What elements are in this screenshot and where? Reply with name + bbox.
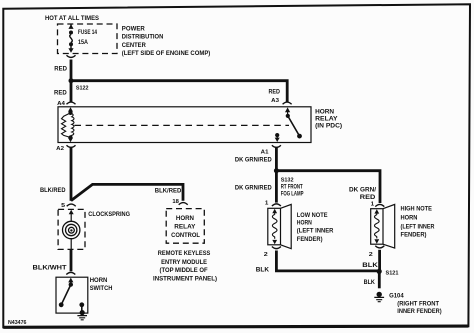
connector A1 [272,145,281,147]
svg-text:FOG LAMP: FOG LAMP [281,191,304,198]
ground at horn switch [77,310,87,320]
connector pin 2 low [272,247,281,249]
splice S132 [274,168,279,173]
wire clockspring to horn switch [70,249,73,271]
clockspring dashed box [58,209,130,249]
svg-text:18: 18 [172,199,179,205]
svg-text:LOW NOTE: LOW NOTE [297,212,328,219]
svg-text:FENDER): FENDER) [401,232,427,239]
svg-text:1: 1 [371,202,375,208]
wire S132 to low note horn [275,171,278,203]
horn switch box [56,277,113,313]
horn relay control dashed box (RKE) [166,209,204,244]
svg-text:RED: RED [54,65,67,72]
svg-text:SWITCH: SWITCH [90,285,113,292]
remote keyless entry module label [153,250,217,282]
svg-text:CENTER: CENTER [122,42,146,49]
connector pin 1 high [375,204,384,206]
horn switch contacts [59,278,84,312]
svg-text:A3: A3 [271,98,279,104]
svg-text:(RIGHT FRONT: (RIGHT FRONT [397,301,439,308]
svg-text:RED: RED [360,194,376,201]
svg-text:BLK: BLK [362,262,378,269]
wire S122 to A3 (top horizontal) [71,81,287,102]
svg-text:CONTROL: CONTROL [171,232,200,239]
svg-text:1: 1 [265,201,269,207]
wire label DK GRN/ RED (high) [349,186,376,201]
connector pin 2 high [375,246,384,248]
svg-text:2: 2 [264,252,268,258]
fuse F14 15A [68,24,97,53]
svg-text:REMOTE KEYLESS: REMOTE KEYLESS [158,250,211,257]
wire high note horn to S121 [378,250,381,271]
wire low note horn to S121 [276,251,379,271]
svg-text:S121: S121 [386,270,399,276]
svg-text:HORN: HORN [297,220,312,227]
wire A1 to S132 [275,148,278,171]
connector below fuse box [67,55,76,57]
connector A2 [67,145,76,147]
wire A2 down to clockspring [70,148,73,201]
connector horn switch [66,272,75,274]
svg-text:HORN: HORN [176,215,194,222]
connector A3 [283,102,292,104]
svg-text:BLK: BLK [364,279,376,286]
relay switch [275,107,302,142]
wire S122 to A4 [70,81,73,102]
connector pin 1 low [272,204,281,206]
svg-text:INSTRUMENT PANEL): INSTRUMENT PANEL) [153,275,217,282]
wire S121 to G104 [378,271,381,288]
svg-text:INNER FENDER): INNER FENDER) [397,308,441,315]
svg-text:FUSE 14: FUSE 14 [78,29,97,36]
high note horn [371,204,435,248]
low note horn [268,204,334,248]
svg-text:HOT AT ALL TIMES: HOT AT ALL TIMES [45,15,100,22]
svg-text:A2: A2 [56,146,64,152]
svg-text:(LEFT INNER: (LEFT INNER [297,228,334,235]
ground G104 [374,292,384,302]
svg-text:HIGH NOTE: HIGH NOTE [401,205,433,212]
svg-text:(LEFT INNER: (LEFT INNER [401,223,435,230]
connector pin 5 [67,204,76,206]
splice S122 [69,78,74,83]
svg-text:HORN: HORN [401,214,418,221]
svg-text:(TOP MIDDLE OF: (TOP MIDDLE OF [160,267,208,274]
relay internal dashed line [75,124,290,126]
svg-text:DK GRN/RED: DK GRN/RED [235,185,272,192]
svg-text:5: 5 [61,203,65,209]
svg-text:N43476: N43476 [8,320,27,326]
relay coil [62,107,75,142]
svg-text:DK GRN/RED: DK GRN/RED [235,157,272,164]
svg-text:HORN: HORN [90,277,108,284]
svg-text:RELAY: RELAY [315,116,338,123]
svg-text:DK GRN/: DK GRN/ [349,186,376,193]
horn relay box [58,107,342,143]
splice S121 [377,269,382,274]
svg-text:2: 2 [369,252,373,258]
svg-text:RELAY: RELAY [174,224,196,231]
svg-text:POWER: POWER [122,25,145,32]
ground label G104 (RIGHT FRONT INNER FENDER) [389,293,441,316]
wire fuse to S122 [70,60,73,81]
svg-text:RED: RED [269,89,281,96]
svg-text:G104: G104 [389,293,404,300]
svg-text:15A: 15A [78,39,88,46]
wire S132 to high note horn [276,171,380,203]
wire branch to RKE module [71,184,183,200]
svg-text:RED: RED [54,90,67,97]
svg-text:S132: S132 [281,178,294,184]
svg-text:A1: A1 [261,150,269,156]
svg-text:S122: S122 [76,85,89,91]
svg-text:CLOCKSPRING: CLOCKSPRING [88,211,130,218]
svg-text:BLK: BLK [256,267,270,274]
power distribution center dashed box [58,24,211,57]
connector pin 18 [179,203,188,205]
svg-text:FENDER): FENDER) [297,236,323,243]
svg-text:HORN: HORN [315,108,334,115]
node label S132 / RT FRONT FOG LAMP [281,178,304,198]
svg-text:DISTRIBUTION: DISTRIBUTION [122,34,164,41]
svg-text:ENTRY MODULE: ENTRY MODULE [161,259,208,266]
clockspring coil spiral [62,210,79,250]
svg-text:BLK/RED: BLK/RED [155,188,182,195]
connector A4 [67,102,76,104]
svg-text:(IN PDC): (IN PDC) [315,123,342,130]
svg-text:BLK/RED: BLK/RED [40,187,66,194]
svg-text:BLK/WHT: BLK/WHT [33,264,67,271]
svg-text:(LEFT SIDE OF ENGINE COMP): (LEFT SIDE OF ENGINE COMP) [122,50,211,57]
